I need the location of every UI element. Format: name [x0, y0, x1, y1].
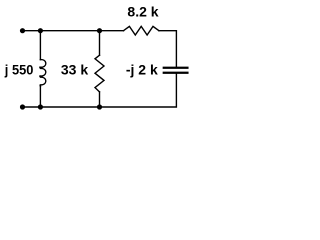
junction dot: inductor top node — [38, 28, 43, 33]
capacitor -j2k top plate — [164, 67, 188, 69]
wire bottom rail (terminal to bottom-right corner up to capacitor) — [23, 74, 177, 107]
inductor L j550 bottom lead — [39, 86, 41, 107]
terminal dot top-left — [20, 28, 25, 33]
svg-text:j 550: j 550 — [4, 61, 34, 77]
resistor 33k bottom lead — [99, 92, 101, 107]
resistor 33k (vertical zigzag) — [95, 55, 104, 92]
inductor L j550 top lead — [39, 31, 41, 60]
inductor L j550 coil — [40, 60, 46, 87]
capacitor -j2k bottom plate — [164, 72, 188, 74]
resistor 33k top lead — [99, 31, 101, 56]
wire top rail left (terminal to 8.2k resistor) — [23, 30, 124, 32]
junction dot: 33k top node — [97, 28, 102, 33]
svg-text:33 k: 33 k — [61, 61, 88, 77]
wire top rail right (resistor to top-right corner, down to capacitor) — [159, 31, 177, 67]
svg-text:-j 2 k: -j 2 k — [126, 62, 158, 78]
terminal dot bottom-left — [20, 104, 25, 109]
junction dot: 33k bottom node — [97, 104, 102, 109]
resistor R 8.2k (horizontal zigzag on top rail) — [124, 26, 159, 35]
junction dot: inductor bottom node — [38, 104, 43, 109]
svg-text:8.2 k: 8.2 k — [127, 3, 158, 19]
